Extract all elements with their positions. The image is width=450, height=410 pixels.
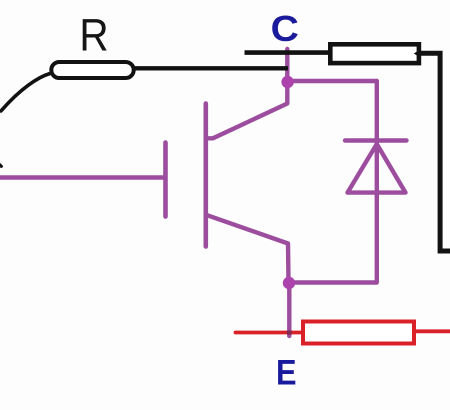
wire node C to diode top <box>288 79 377 83</box>
junction purple-over-red at E rail <box>287 330 292 334</box>
diode D1 triangle <box>348 144 406 193</box>
wire curved lead into resistor R <box>1 74 50 112</box>
wire emitter lead of Q1 <box>206 215 289 283</box>
wire R2 to right rail and down <box>419 53 450 251</box>
resistor R3 body (red, emitter shunt) <box>303 322 414 344</box>
junction node E <box>283 277 295 289</box>
gate bar of IGBT Q1 <box>163 143 168 217</box>
junction node C <box>281 76 293 88</box>
wire node E down to red rail <box>287 283 291 336</box>
wire top rail to resistor R2 <box>245 50 331 55</box>
wire from R to collector node <box>135 66 288 70</box>
svg-text:R: R <box>79 11 108 61</box>
wire gate lead (purple horizontal into gate) <box>0 175 164 179</box>
diode D1 cathode bar <box>345 138 407 142</box>
resistor R2 body (top right) <box>330 44 419 63</box>
wire diode branch (right vertical + bottom to node E) <box>289 81 377 283</box>
wire red rail left <box>236 331 304 335</box>
body bar of IGBT Q1 <box>204 104 209 247</box>
svg-text:C: C <box>271 9 299 50</box>
wire stub at left edge <box>0 164 1 167</box>
wire collector lead of Q1 <box>206 49 287 138</box>
wire red rail right <box>415 329 450 333</box>
svg-text:E: E <box>276 352 297 391</box>
notch in R2 right end <box>414 49 421 57</box>
resistor R body <box>51 62 133 78</box>
